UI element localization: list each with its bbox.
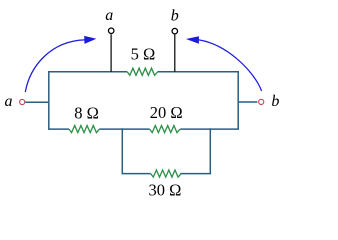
svg-text:a: a — [5, 93, 13, 110]
svg-text:30 Ω: 30 Ω — [149, 181, 182, 200]
svg-text:b: b — [271, 93, 279, 110]
svg-text:5 Ω: 5 Ω — [131, 44, 156, 63]
svg-text:20 Ω: 20 Ω — [150, 103, 183, 122]
svg-text:a: a — [105, 7, 113, 24]
svg-text:b: b — [171, 8, 179, 25]
svg-text:8 Ω: 8 Ω — [74, 103, 99, 122]
